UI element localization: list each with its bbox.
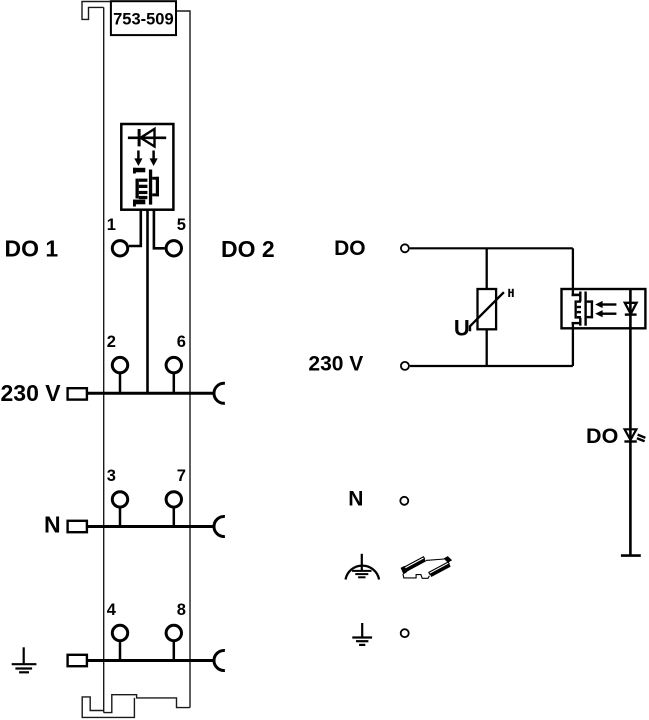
wire DO down to box bbox=[572, 248, 574, 296]
svg-text:DO: DO bbox=[586, 424, 618, 448]
LED D1 wire bbox=[128, 137, 166, 140]
photodiode D2 cathode bar bbox=[625, 313, 637, 315]
230V bus wire bbox=[87, 392, 214, 395]
light arrow left bbox=[134, 151, 142, 167]
optocoupler box U2 bbox=[562, 289, 646, 328]
node 230V terminal circle bbox=[401, 362, 409, 370]
transistor Q1 top hook bbox=[133, 168, 136, 174]
label box 753-509 bbox=[111, 1, 176, 35]
wire box to terminal 5 bbox=[154, 210, 165, 249]
wire 230V bottom bbox=[410, 365, 573, 367]
transistor Q2 gate line bbox=[584, 292, 586, 326]
LED D1 cathode bar bbox=[138, 129, 141, 146]
rail near flange shadow stripe bbox=[430, 564, 451, 577]
transistor Q1 comb teeth bbox=[139, 179, 148, 200]
transistor Q2 jog top bbox=[572, 294, 582, 297]
varistor RV1 body bbox=[478, 289, 497, 329]
svg-text:230 V: 230 V bbox=[308, 353, 363, 376]
transistor Q2 jog bottom bbox=[572, 322, 582, 324]
svg-text:N: N bbox=[348, 488, 363, 511]
DIN rail icon bbox=[401, 556, 453, 578]
terminal 7 bbox=[166, 492, 181, 507]
transistor Q2 channel top bbox=[579, 292, 581, 302]
svg-text:4: 4 bbox=[107, 601, 117, 619]
light arrow lower bbox=[595, 310, 616, 317]
svg-text:DO: DO bbox=[334, 237, 366, 260]
rail channel right cut edge bbox=[426, 559, 444, 560]
varistor RV1 tick marks bbox=[509, 289, 514, 297]
rail far flange shadow stripe bbox=[403, 559, 426, 573]
transistor Q1 gate line bbox=[149, 170, 152, 205]
terminal 1 bbox=[112, 241, 127, 256]
terminal 2 bbox=[112, 357, 127, 372]
shield earth symbol bbox=[346, 554, 380, 580]
terminal 5 bbox=[166, 241, 181, 256]
svg-text:5: 5 bbox=[177, 216, 186, 234]
svg-text:8: 8 bbox=[177, 601, 186, 619]
svg-text:753-509: 753-509 bbox=[113, 10, 174, 28]
module left edge bbox=[103, 7, 105, 712]
230V bus C connector bbox=[214, 383, 225, 403]
rail far flange white face bbox=[402, 557, 425, 571]
terminal 7 stem bbox=[173, 507, 176, 526]
transistor Q2 comb teeth bbox=[577, 300, 581, 318]
rail left end cap bbox=[401, 566, 408, 575]
terminal 3 bbox=[112, 492, 127, 507]
wire box to terminal 1 bbox=[129, 210, 141, 246]
svg-text:DO 2: DO 2 bbox=[221, 236, 275, 262]
LED D3 triangle bbox=[625, 429, 637, 440]
light arrow upper bbox=[595, 301, 616, 308]
terminal 8 bbox=[166, 625, 181, 640]
node N terminal circle bbox=[400, 497, 408, 505]
photodiode line down bbox=[629, 289, 632, 556]
LED D3 cathode bar bbox=[624, 440, 636, 442]
wire varistor branch bottom bbox=[486, 329, 488, 366]
transistor Q1 comb bar bbox=[136, 179, 139, 199]
230V bus connector square bbox=[68, 388, 87, 399]
wire DO top bbox=[410, 247, 573, 249]
wire box to 230V wire bbox=[572, 322, 574, 366]
terminal 6 stem bbox=[173, 373, 176, 394]
module bottom foot bbox=[82, 695, 190, 718]
terminal 2 stem bbox=[119, 373, 122, 394]
module right edge bbox=[176, 11, 190, 708]
transistor Q1 bracket bbox=[152, 177, 159, 197]
svg-text:1: 1 bbox=[107, 216, 116, 234]
wire box to 230V bus bbox=[146, 210, 149, 394]
svg-text:DO 1: DO 1 bbox=[5, 236, 59, 262]
LED D1 triangle bbox=[141, 129, 155, 147]
transistor Q2 bracket bbox=[587, 300, 594, 318]
terminal 4 bbox=[112, 625, 127, 640]
photodiode D2 triangle bbox=[625, 303, 637, 314]
svg-text:230 V: 230 V bbox=[1, 380, 62, 406]
opto box U1 bbox=[121, 124, 173, 210]
svg-text:7: 7 bbox=[177, 467, 186, 485]
module outline top notch bbox=[82, 2, 176, 20]
terminal 4 stem bbox=[119, 641, 122, 661]
svg-text:6: 6 bbox=[177, 333, 186, 351]
transistor Q1 top bar bbox=[133, 168, 145, 173]
svg-text:U: U bbox=[454, 316, 470, 341]
transistor Q2 channel bottom bbox=[579, 318, 581, 326]
wire varistor branch top bbox=[486, 248, 488, 289]
earth bus wire bbox=[87, 659, 214, 662]
transistor Q2 comb bar bbox=[575, 300, 577, 318]
N bus C connector bbox=[214, 517, 225, 537]
terminal 3 stem bbox=[119, 507, 122, 526]
terminal 6 bbox=[166, 357, 181, 372]
transistor Q1 bottom bar bbox=[133, 200, 145, 205]
earth symbol left bbox=[12, 647, 37, 672]
N bus connector square bbox=[68, 521, 87, 532]
earth bus C connector bbox=[214, 651, 225, 671]
varistor RV1 diagonal bbox=[470, 292, 504, 331]
svg-text:N: N bbox=[44, 512, 61, 538]
transistor Q1 bottom hook bbox=[133, 200, 136, 207]
rail right end cap bbox=[444, 556, 453, 563]
svg-text:2: 2 bbox=[107, 333, 116, 351]
earth bus connector square bbox=[68, 655, 87, 666]
earth symbol middle bbox=[352, 623, 372, 645]
light arrow right bbox=[150, 151, 158, 167]
N bus wire bbox=[87, 525, 214, 528]
terminal 8 stem bbox=[173, 641, 176, 661]
LED D3 flash arrows bbox=[637, 435, 646, 442]
node DO terminal circle bbox=[401, 244, 409, 252]
svg-text:3: 3 bbox=[107, 467, 116, 485]
rail bottom notch outline bbox=[403, 574, 430, 578]
ground end bar bbox=[621, 554, 641, 557]
node earth terminal circle bbox=[401, 629, 409, 637]
rail near flange white face bbox=[429, 562, 449, 574]
